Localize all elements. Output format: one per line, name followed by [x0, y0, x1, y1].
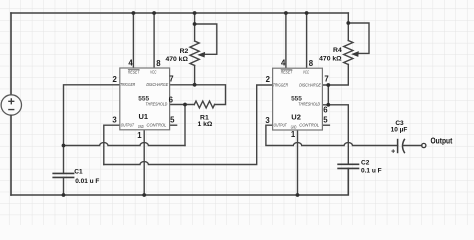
resistor R1 zigzag: [194, 101, 214, 108]
svg-text:R4: R4: [333, 47, 342, 54]
svg-text:C2: C2: [361, 159, 370, 166]
capacitor C1: [52, 173, 74, 177]
svg-text:CONTROL: CONTROL: [147, 122, 167, 127]
wire trigger-threshold net with hops: [64, 143, 186, 146]
svg-text:OUTPUT: OUTPUT: [274, 123, 288, 128]
wire R2 top lead: [194, 13, 196, 41]
wire U2 pin 5 control stub: [322, 124, 329, 126]
wire U1 threshold node down: [184, 105, 186, 146]
IC U2 555 timer: [265, 59, 328, 140]
wire C1 top lead: [63, 146, 65, 174]
wire U1 pin 8 vcc vertical: [153, 13, 155, 68]
svg-text:3: 3: [265, 116, 270, 125]
junction U1 pin8 on rail: [152, 11, 156, 15]
svg-text:RESET: RESET: [128, 69, 140, 74]
wire U1 pin 6 threshold lead: [170, 104, 195, 106]
wire U2 pin 6 threshold to C2: [322, 105, 348, 165]
svg-text:U1: U1: [139, 112, 149, 121]
svg-text:TRIGGER: TRIGGER: [273, 82, 289, 87]
wire U1 pin 5 control stub: [170, 124, 177, 126]
wire R4 top lead: [347, 13, 349, 41]
junction R2 on rail: [193, 11, 197, 15]
capacitor C3 polarized: [398, 139, 405, 153]
junction C1 on ground rail: [62, 193, 66, 197]
wire C1 bottom lead: [63, 177, 65, 195]
wire R2 wiper loop: [195, 24, 217, 54]
wire U1 pin 7 discharge to R1 loop: [170, 85, 226, 105]
wire ground rail to C2 bottom: [11, 168, 348, 195]
resistor R4 potentiometer zigzag: [344, 41, 353, 65]
svg-text:2: 2: [266, 75, 271, 84]
output terminal: [422, 143, 426, 147]
svg-text:4: 4: [281, 59, 286, 68]
svg-text:CONTROL: CONTROL: [299, 123, 319, 128]
svg-text:DISCHARGE: DISCHARGE: [299, 82, 322, 87]
junction node A trigger C1: [62, 144, 66, 148]
wire U2 pin 1 gnd vertical: [297, 130, 299, 195]
svg-text:5: 5: [323, 116, 328, 125]
capacitor C2: [337, 164, 359, 168]
svg-text:7: 7: [169, 74, 173, 83]
junction U2 pin4 on rail: [284, 11, 288, 15]
pin label RESET overline: [128, 69, 140, 71]
svg-text:2: 2: [113, 75, 118, 84]
svg-text:C1: C1: [74, 169, 83, 176]
svg-text:8: 8: [309, 59, 314, 68]
wire C3 to output terminal: [403, 145, 422, 147]
svg-text:4: 4: [128, 59, 133, 68]
svg-text:TRIGGER: TRIGGER: [120, 82, 136, 87]
svg-text:Output: Output: [431, 136, 453, 145]
wire U1 pin 3 output down: [104, 125, 120, 164]
junction U1 pin4 on rail: [132, 11, 136, 15]
wire U1 pin 2 trigger to node A: [64, 85, 120, 146]
junction U2 pin8 on rail: [305, 11, 309, 15]
svg-text:THRESHOLD: THRESHOLD: [146, 102, 168, 107]
R2 wiper arrowhead: [197, 52, 205, 58]
svg-text:U2: U2: [291, 113, 301, 122]
wire VCC top rail: [11, 12, 348, 14]
svg-text:DISCHARGE: DISCHARGE: [146, 82, 169, 87]
svg-text:VCC: VCC: [303, 70, 310, 75]
svg-text:RESET: RESET: [281, 70, 293, 75]
pin label RESET overline: [281, 69, 293, 71]
junction U2 discharge link: [326, 83, 330, 87]
svg-text:3: 3: [112, 115, 117, 124]
junction R2 at U1 discharge: [193, 83, 197, 87]
svg-text:1: 1: [291, 130, 296, 139]
wire R4 wiper loop: [348, 23, 369, 53]
wire U2 pin 8 vcc vertical: [306, 13, 308, 68]
svg-text:R2: R2: [180, 48, 189, 55]
junction U1 threshold node: [183, 103, 187, 107]
wire R4 bottom lead to U2 pin 7: [322, 65, 348, 86]
wire U2 pin 4 reset vertical: [285, 13, 287, 68]
junction R4 wiper branch: [346, 21, 350, 25]
svg-text:470 kΩ: 470 kΩ: [165, 56, 188, 63]
svg-text:5: 5: [170, 116, 175, 125]
svg-text:GND: GND: [291, 124, 297, 129]
svg-text:1 kΩ: 1 kΩ: [197, 121, 212, 128]
resistor R2 potentiometer zigzag: [190, 41, 199, 66]
wire source positive lead up: [10, 13, 12, 95]
wire source negative lead down: [10, 115, 12, 195]
svg-text:7: 7: [324, 74, 328, 83]
svg-text:1: 1: [137, 131, 142, 140]
junction U2 threshold link: [326, 103, 330, 107]
svg-text:470 kΩ: 470 kΩ: [319, 55, 342, 62]
wire U1 output to U2 trigger with hop: [104, 85, 273, 165]
R4 wiper arrowhead: [351, 51, 359, 57]
junction U1 gnd on ground rail: [142, 193, 146, 197]
svg-text:0.1 u F: 0.1 u F: [361, 168, 382, 175]
wire U2 pin 3 output to C3 with hops: [266, 125, 398, 145]
svg-text:6: 6: [169, 95, 174, 104]
svg-text:8: 8: [156, 59, 161, 68]
svg-text:0.01 u F: 0.01 u F: [75, 178, 99, 185]
svg-text:OUTPUT: OUTPUT: [121, 122, 135, 127]
voltage source V1: [1, 95, 21, 115]
wire U1 pin 4 reset vertical: [132, 13, 134, 68]
junction U2 gnd on ground rail: [296, 193, 300, 197]
wire U2 pin 7 to pin 6 link: [327, 85, 329, 105]
svg-text:10 µF: 10 µF: [391, 127, 408, 134]
svg-text:+: +: [391, 148, 395, 155]
svg-text:THRESHOLD: THRESHOLD: [298, 102, 320, 107]
svg-text:VCC: VCC: [150, 69, 157, 74]
wire R2 bottom lead: [194, 66, 196, 85]
wire U1 pin 1 gnd vertical: [143, 130, 145, 195]
svg-text:6: 6: [323, 106, 328, 115]
IC U1 555 timer: [112, 59, 175, 140]
junction R2 wiper branch: [193, 22, 197, 26]
svg-text:GND: GND: [138, 124, 144, 129]
